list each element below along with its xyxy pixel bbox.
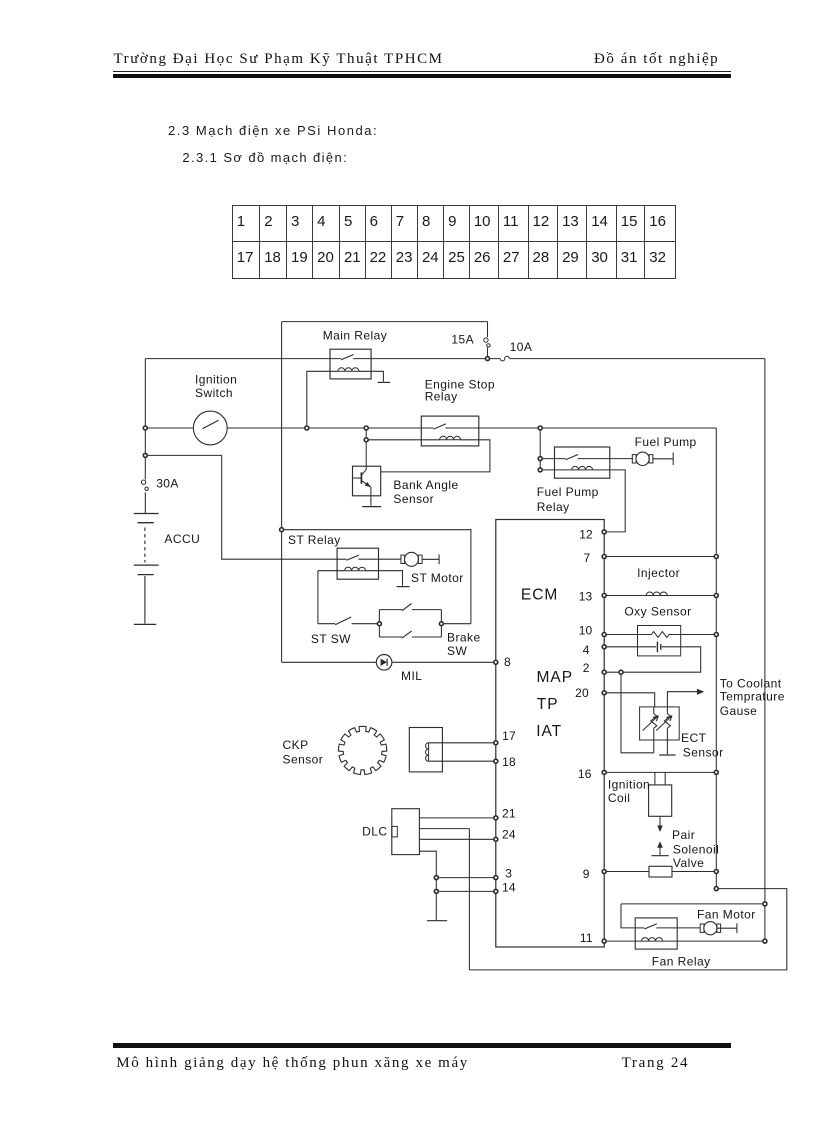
svg-text:DLC: DLC <box>362 825 387 839</box>
svg-text:ECT: ECT <box>681 731 707 745</box>
svg-text:Switch: Switch <box>195 386 233 400</box>
svg-text:Injector: Injector <box>637 566 680 580</box>
svg-text:Oxy Sensor: Oxy Sensor <box>624 604 691 618</box>
svg-text:9: 9 <box>583 867 590 881</box>
svg-text:3: 3 <box>505 866 512 880</box>
svg-text:Temprature: Temprature <box>720 689 785 703</box>
svg-text:17: 17 <box>502 729 516 743</box>
svg-text:Sensor: Sensor <box>283 752 324 766</box>
svg-text:Fuel Pump: Fuel Pump <box>635 435 697 449</box>
svg-text:ST Motor: ST Motor <box>411 571 464 585</box>
svg-text:12: 12 <box>579 527 593 541</box>
svg-text:8: 8 <box>504 655 511 669</box>
svg-text:4: 4 <box>583 643 590 657</box>
svg-text:14: 14 <box>502 880 516 894</box>
svg-text:ACCU: ACCU <box>164 532 200 546</box>
svg-text:Fan Relay: Fan Relay <box>652 955 711 969</box>
svg-text:MAP: MAP <box>537 669 574 686</box>
svg-text:CKP: CKP <box>283 738 309 752</box>
svg-text:18: 18 <box>502 755 516 769</box>
svg-text:Valve: Valve <box>673 856 704 870</box>
svg-text:Relay: Relay <box>425 390 458 404</box>
svg-text:MIL: MIL <box>401 669 422 683</box>
svg-text:Pair: Pair <box>672 828 695 842</box>
svg-text:SW: SW <box>447 644 467 658</box>
svg-text:Main Relay: Main Relay <box>323 328 388 342</box>
svg-text:20: 20 <box>575 686 589 700</box>
svg-text:Brake: Brake <box>447 630 481 644</box>
svg-text:11: 11 <box>580 931 593 945</box>
svg-text:To Coolant: To Coolant <box>720 677 782 691</box>
svg-text:Ignition: Ignition <box>195 373 237 387</box>
svg-text:Fuel Pump: Fuel Pump <box>537 485 599 499</box>
svg-text:13: 13 <box>579 590 593 604</box>
svg-text:Sensor: Sensor <box>393 492 434 506</box>
svg-text:IAT: IAT <box>536 723 562 740</box>
svg-text:21: 21 <box>502 806 516 820</box>
svg-text:Coil: Coil <box>608 791 630 805</box>
svg-text:Gause: Gause <box>720 704 758 718</box>
svg-text:Sensor: Sensor <box>683 746 724 760</box>
svg-text:ST Relay: ST Relay <box>288 533 341 547</box>
svg-text:15A: 15A <box>451 333 474 347</box>
svg-text:16: 16 <box>578 767 592 781</box>
svg-text:10A: 10A <box>510 340 533 354</box>
svg-text:2: 2 <box>583 661 590 675</box>
svg-text:10: 10 <box>579 624 593 638</box>
svg-text:Ignition: Ignition <box>608 778 650 792</box>
svg-text:30A: 30A <box>156 476 179 490</box>
svg-text:Relay: Relay <box>537 500 570 514</box>
svg-text:ST SW: ST SW <box>311 632 351 646</box>
svg-text:Fan Motor: Fan Motor <box>697 908 756 922</box>
svg-text:24: 24 <box>502 828 516 842</box>
svg-text:7: 7 <box>584 551 591 565</box>
svg-text:Bank Angle: Bank Angle <box>393 478 458 492</box>
svg-text:ECM: ECM <box>521 587 558 604</box>
svg-text:Solenoil: Solenoil <box>673 843 719 857</box>
svg-text:TP: TP <box>537 696 559 713</box>
